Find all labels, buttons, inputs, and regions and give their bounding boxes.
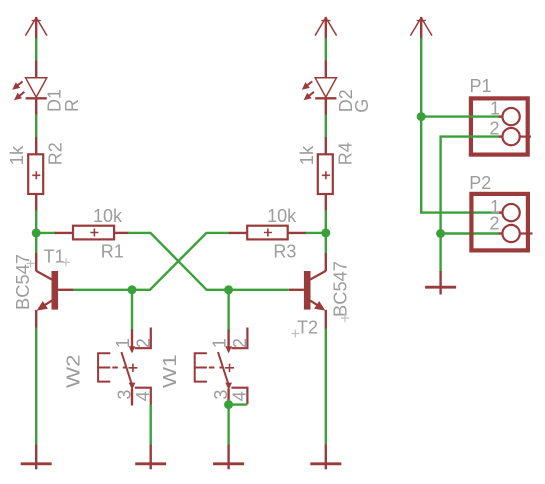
wire VCC to D1 (35, 38, 37, 61)
node B junction (T1 base) (128, 285, 137, 294)
wire P1 pin 2 chain (441, 137, 500, 234)
wire node A to R1 (36, 232, 55, 234)
svg-text:G: G (352, 99, 372, 113)
transistor T1 (36, 253, 73, 329)
wire R2 to node A (35, 210, 37, 233)
transistor T2 (289, 253, 326, 330)
node G junction (436, 229, 445, 238)
node D junction (224, 400, 233, 409)
svg-text:1: 1 (113, 338, 133, 348)
svg-text:1k: 1k (7, 145, 27, 166)
svg-text:P1: P1 (470, 76, 492, 96)
wire T2 emitter to ground (325, 329, 327, 446)
origin cross BC547 T1 (27, 259, 35, 267)
svg-text:3: 3 (211, 390, 231, 400)
wire node G to ground (439, 234, 441, 273)
svg-text:10k: 10k (93, 206, 123, 226)
wire node B to W2 (131, 290, 133, 331)
origin cross BC547 T2 (341, 314, 349, 322)
wire node F down (421, 117, 500, 213)
svg-text:R4: R4 (335, 142, 355, 165)
supply VCC arrow 2 (315, 17, 337, 39)
origin cross T1 (62, 258, 70, 266)
LED D2 (302, 61, 337, 116)
ground GND4 (310, 445, 341, 470)
switch W2 (98, 328, 151, 406)
P1 pin 1 pad (499, 108, 520, 125)
ground GND1 (21, 445, 52, 470)
wire node G to P2 pin 2 (441, 232, 500, 234)
svg-text:1: 1 (490, 99, 500, 119)
origin cross T2 (291, 330, 299, 338)
svg-text:2: 2 (134, 338, 154, 348)
svg-text:4: 4 (229, 391, 249, 401)
svg-text:W1: W1 (160, 355, 180, 389)
P2 pin 2 pad (499, 225, 533, 242)
ground GND5 (425, 271, 456, 295)
svg-text:10k: 10k (267, 206, 297, 226)
connector P2 (471, 194, 528, 251)
svg-text:R1: R1 (101, 242, 124, 262)
resistor R2 (28, 137, 43, 211)
wire R3 to crossover (73, 233, 228, 290)
svg-text:1k: 1k (297, 145, 317, 166)
LED D1 (12, 61, 47, 116)
switch W1 (195, 328, 248, 406)
svg-text:T1: T1 (44, 247, 65, 267)
wire VCC to D2 (325, 38, 327, 61)
svg-text:W2: W2 (64, 355, 84, 389)
svg-text:P2: P2 (469, 173, 491, 193)
ground GND3 (213, 445, 244, 470)
svg-text:3: 3 (114, 390, 134, 400)
P2 pin 1 pad (499, 204, 520, 221)
connector P1 (471, 98, 528, 154)
node F junction (417, 112, 426, 121)
svg-text:R: R (62, 99, 82, 112)
svg-text:2: 2 (489, 119, 499, 139)
wire node A to T1 collector (35, 233, 37, 254)
wire T2 base (206, 289, 288, 291)
wire T1 emitter to ground (35, 328, 37, 446)
node E junction (321, 228, 330, 237)
wire D2 to R4 (325, 115, 327, 139)
ground GND2 (135, 445, 166, 470)
svg-text:R2: R2 (46, 142, 66, 165)
supply VCC arrow 1 (25, 17, 47, 39)
svg-text:4: 4 (133, 391, 153, 401)
svg-text:R3: R3 (273, 242, 296, 262)
wire VCC to node F (420, 38, 422, 117)
node C junction (T2 base) (224, 285, 233, 294)
node A junction (32, 228, 41, 237)
wire W2 to ground (149, 405, 151, 446)
wire node E to T2 collector (325, 233, 327, 254)
wire node C to W1 (227, 290, 229, 331)
resistor R3 (229, 226, 306, 240)
supply VCC arrow 3 (410, 17, 432, 39)
wire node D to ground (227, 405, 229, 446)
svg-text:BC547: BC547 (330, 261, 350, 317)
wire R3 to node E (305, 232, 326, 234)
svg-text:1: 1 (209, 338, 229, 348)
wire W1 pin4 to node D (229, 403, 248, 405)
wire R4 to node E (325, 210, 327, 233)
resistor R1 (55, 226, 129, 240)
svg-text:T2: T2 (297, 318, 318, 338)
svg-text:2: 2 (230, 338, 250, 348)
wire D1 to R2 (35, 115, 37, 139)
resistor R4 (318, 137, 333, 211)
wire node F to P1 pin 1 (421, 115, 500, 117)
P1 pin 2 pad (499, 128, 531, 145)
svg-text:2: 2 (489, 214, 499, 234)
wire R1 to crossover (128, 233, 207, 290)
